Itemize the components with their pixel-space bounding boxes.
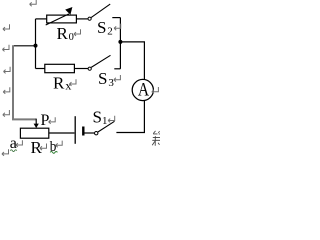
svg-text:R0: R0 xyxy=(57,24,74,43)
potentiometer wiper arrow P xyxy=(34,119,39,129)
switch S1 pivot xyxy=(95,132,98,135)
resistor Rx box xyxy=(45,64,75,72)
svg-text:Rx: Rx xyxy=(53,73,71,92)
grammar wavy underline under b xyxy=(50,151,57,153)
node: bridge mid tap dot xyxy=(34,44,38,48)
paragraph return marks (document formatting) xyxy=(2,0,159,156)
partial Chinese character at right edge xyxy=(152,131,160,146)
switch S3 contact stub xyxy=(114,68,120,70)
faint mark under a xyxy=(10,150,17,152)
prime tick on R' xyxy=(37,142,40,144)
wire: pot box right to battery xyxy=(49,132,75,134)
switch S2 pivot xyxy=(88,17,91,20)
wire: R0 to switch S2 xyxy=(76,18,88,20)
node: junction dot on right rail xyxy=(118,40,122,44)
svg-text:A: A xyxy=(138,79,150,100)
wire: left vertical rail xyxy=(35,19,37,69)
potentiometer R' box xyxy=(20,128,48,138)
wire: R0 branch left lead xyxy=(36,18,47,20)
svg-text:S1: S1 xyxy=(93,108,108,128)
wire: battery to switch S1 xyxy=(85,132,95,134)
wire: gray potentiometer feed (down left side and across) xyxy=(13,45,36,119)
switch S1 lever xyxy=(98,121,115,132)
resistor R0 (rheostat box) xyxy=(47,15,77,23)
wire: junction to ammeter top xyxy=(120,42,144,80)
switch S2 contact stub xyxy=(112,17,120,19)
svg-text:S2: S2 xyxy=(97,18,113,38)
svg-text:S3: S3 xyxy=(98,69,114,89)
wire: S1 contact to ammeter bottom xyxy=(116,100,144,132)
rheostat arrow through R0 xyxy=(46,7,73,25)
wire: Rx branch left lead xyxy=(36,68,45,70)
wire: Rx to switch S3 xyxy=(74,68,88,70)
battery short plate (-) xyxy=(82,127,84,136)
switch S3 pivot xyxy=(88,67,91,70)
battery long plate (+) xyxy=(74,116,76,144)
wire: tap dot to left (black) xyxy=(14,45,36,47)
svg-text:P: P xyxy=(41,112,50,129)
switch S3 lever xyxy=(91,55,110,67)
switch S2 lever xyxy=(91,4,110,18)
wire: right vertical rail (S2 contact to S3 contact) xyxy=(119,18,121,69)
ammeter A (circle) xyxy=(132,79,153,100)
